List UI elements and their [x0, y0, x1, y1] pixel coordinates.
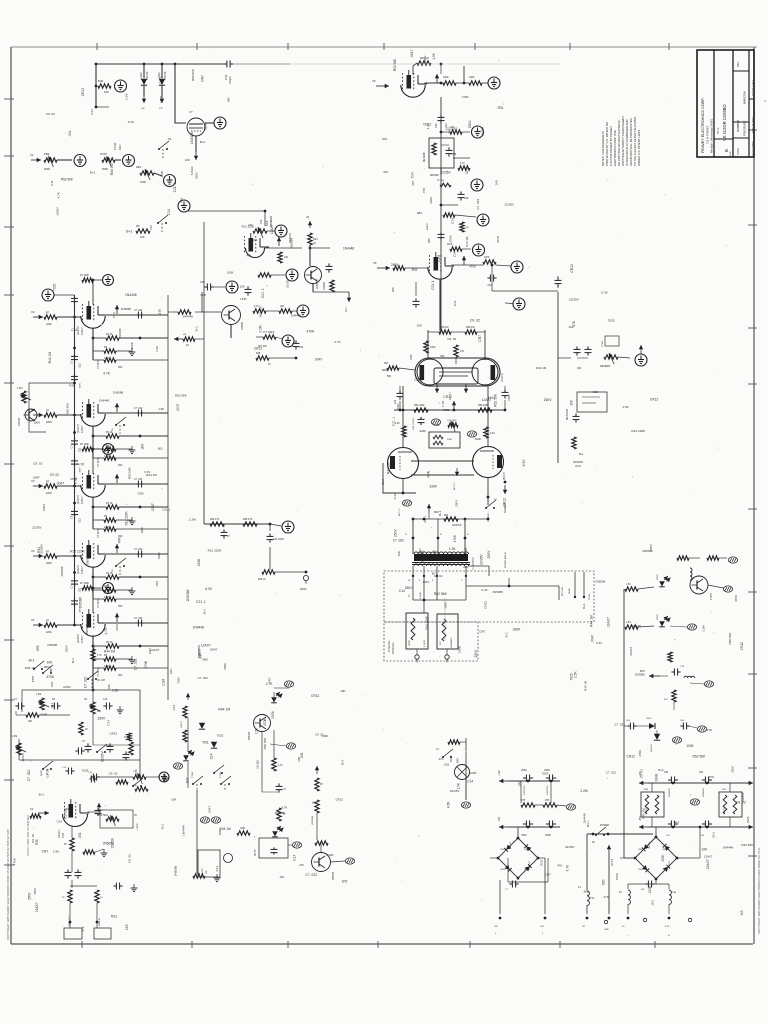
svg-text:.0047: .0047: [176, 403, 180, 411]
svg-text:45K: 45K: [118, 674, 123, 677]
svg-text:R44 1M: R44 1M: [220, 827, 232, 831]
svg-text:7025: 7025: [608, 318, 615, 322]
svg-text:.001: .001: [381, 137, 387, 141]
svg-text:R12 220K: R12 220K: [125, 510, 129, 525]
svg-text:C10: C10: [103, 699, 108, 701]
svg-text:.1/400V: .1/400V: [509, 394, 511, 402]
svg-text:6.3V: 6.3V: [205, 587, 213, 591]
svg-text:2.2K: 2.2K: [490, 433, 495, 435]
svg-text:470K: 470K: [160, 171, 164, 178]
svg-text:XF1: XF1: [345, 307, 348, 312]
svg-text:C? .022: C? .022: [134, 548, 143, 551]
svg-text:4.7K: 4.7K: [334, 340, 341, 344]
svg-text:100K: 100K: [518, 780, 522, 787]
svg-text:470K: 470K: [46, 675, 55, 679]
svg-text:4.7K: 4.7K: [97, 655, 102, 657]
svg-text:10K: 10K: [340, 689, 345, 693]
svg-text:LDR70: LDR70: [181, 720, 183, 728]
svg-text:RETRANS: RETRANS: [566, 409, 569, 420]
svg-text:10K: 10K: [280, 305, 285, 308]
svg-text:250V: 250V: [70, 477, 78, 481]
svg-text:.022: .022: [79, 363, 82, 368]
svg-text:12BC7: 12BC7: [81, 496, 84, 504]
svg-text:7025: 7025: [217, 733, 224, 737]
svg-text:2N5088: 2N5088: [333, 871, 335, 880]
svg-text:R23: R23: [313, 238, 318, 241]
svg-text:CR12: CR12: [484, 601, 488, 609]
svg-text:4.7K: 4.7K: [57, 192, 61, 198]
svg-text:10K: 10K: [397, 550, 401, 556]
svg-text:220/5W: 220/5W: [724, 807, 726, 814]
svg-text:2.2M: 2.2M: [702, 625, 706, 632]
svg-text:6.3V: 6.3V: [596, 641, 602, 645]
svg-text:7025: 7025: [746, 816, 750, 823]
svg-text:C9 .02: C9 .02: [109, 772, 118, 776]
svg-text:+C: +C: [183, 333, 186, 336]
svg-text:.0047: .0047: [207, 806, 211, 814]
svg-text:C50: C50: [664, 772, 669, 774]
svg-text:22/35V: 22/35V: [286, 278, 290, 288]
svg-text:C14: C14: [410, 172, 414, 178]
svg-text:CR12: CR12: [740, 642, 744, 650]
svg-text:CR57: CR57: [638, 849, 644, 851]
svg-text:4.7K: 4.7K: [266, 682, 273, 686]
svg-text:.022: .022: [79, 587, 82, 592]
svg-text:680: 680: [602, 879, 606, 885]
svg-text:C33 10/35: C33 10/35: [273, 539, 284, 541]
svg-text:R31: R31: [498, 106, 504, 110]
svg-text:1.5K: 1.5K: [53, 849, 59, 853]
svg-text:R12 220K: R12 220K: [208, 549, 223, 553]
svg-text:ACTL2: ACTL2: [611, 858, 614, 866]
svg-text:12AX7: 12AX7: [706, 859, 710, 869]
svg-text:330K: 330K: [40, 712, 48, 716]
svg-text:SEND: SEND: [300, 589, 307, 591]
svg-text:DATE 28 JAN 5: DATE 28 JAN 5: [752, 116, 755, 133]
svg-text:C14: C14: [90, 109, 94, 115]
svg-text:330K: 330K: [655, 773, 659, 782]
svg-text:DEEP: DEEP: [41, 770, 43, 776]
svg-text:(12AX7): (12AX7): [77, 424, 80, 433]
svg-text:45K: 45K: [118, 605, 123, 608]
svg-text:250V: 250V: [271, 710, 275, 718]
svg-text:220K: 220K: [46, 492, 52, 495]
svg-text:C14: C14: [293, 854, 297, 860]
svg-text:1.5K: 1.5K: [434, 423, 440, 427]
svg-text:R44 1M: R44 1M: [387, 462, 391, 474]
svg-text:4.7K: 4.7K: [460, 163, 465, 165]
svg-text:100K: 100K: [648, 885, 652, 894]
svg-text:4.7K: 4.7K: [433, 549, 437, 557]
svg-text:CR12: CR12: [311, 694, 320, 698]
svg-text:C14: C14: [172, 704, 176, 710]
svg-text:2N5088: 2N5088: [85, 624, 89, 635]
svg-text:CR12: CR12: [414, 378, 422, 382]
svg-text:STP50: STP50: [711, 592, 713, 600]
svg-text:C? .022: C? .022: [134, 478, 143, 481]
svg-text:R12 220K: R12 220K: [424, 616, 428, 629]
svg-text:R31: R31: [203, 740, 209, 744]
svg-text:C14: C14: [107, 720, 111, 726]
svg-text:C14: C14: [452, 251, 456, 257]
svg-text:470K: 470K: [263, 718, 267, 727]
svg-text:1.5K: 1.5K: [574, 671, 578, 678]
svg-text:C? 22/35: C? 22/35: [97, 457, 100, 467]
svg-text:.001: .001: [68, 130, 72, 137]
svg-text:6.3V: 6.3V: [92, 646, 96, 653]
svg-text:TITLE: TITLE: [717, 127, 720, 134]
svg-text:C54A: C54A: [521, 769, 527, 772]
svg-text:22/35V: 22/35V: [481, 127, 485, 136]
svg-text:R52 56K: R52 56K: [175, 394, 187, 398]
svg-text:R40: R40: [98, 79, 104, 83]
svg-text:220K: 220K: [443, 76, 449, 79]
svg-text:100K: 100K: [484, 257, 490, 259]
svg-text:B+1: B+1: [71, 658, 75, 664]
svg-text:B+1: B+1: [126, 230, 132, 234]
svg-text:R52 56K: R52 56K: [728, 633, 732, 645]
svg-text:500K: 500K: [44, 167, 50, 171]
svg-text:250V: 250V: [474, 649, 478, 658]
svg-text:2.2M: 2.2M: [12, 736, 17, 738]
svg-text:10K: 10K: [185, 158, 190, 162]
svg-text:12AX7: 12AX7: [270, 224, 274, 234]
svg-text:V8A: V8A: [440, 355, 445, 358]
svg-text:470K: 470K: [469, 264, 476, 268]
svg-text:47K: 47K: [707, 728, 713, 732]
svg-text:4.7K: 4.7K: [103, 372, 110, 376]
svg-text:MAIN IN: MAIN IN: [98, 917, 101, 926]
svg-text:330K: 330K: [430, 485, 438, 489]
svg-text:R52 56K: R52 56K: [693, 754, 707, 758]
svg-text:2.2M: 2.2M: [437, 255, 441, 262]
svg-text:1.2M: 1.2M: [17, 387, 22, 390]
svg-text:4.7K: 4.7K: [565, 864, 569, 871]
svg-text:GND: GND: [604, 929, 609, 931]
svg-text:7025: 7025: [269, 216, 273, 223]
svg-text:10K: 10K: [140, 235, 145, 239]
svg-text:C? 22/35: C? 22/35: [97, 528, 100, 538]
svg-text:R44 1M: R44 1M: [536, 366, 547, 370]
svg-text:FTSW: FTSW: [602, 340, 604, 347]
svg-text:R52 56K: R52 56K: [258, 306, 262, 317]
svg-text:10000/50: 10000/50: [669, 787, 671, 797]
svg-text:1N4448: 1N4448: [99, 398, 110, 402]
svg-text:STNDBY: STNDBY: [488, 513, 490, 522]
svg-text:100K: 100K: [686, 744, 694, 748]
svg-text:2N5088: 2N5088: [103, 842, 114, 846]
svg-text:C9 .02: C9 .02: [50, 473, 60, 477]
svg-text:C7 .022: C7 .022: [305, 873, 317, 877]
svg-text:R49 1M: R49 1M: [466, 326, 474, 329]
svg-text:.022: .022: [487, 285, 492, 287]
svg-text:CR7: CR7: [545, 872, 551, 876]
svg-text:B+1: B+1: [658, 768, 664, 772]
svg-text:T8A: T8A: [672, 891, 677, 894]
svg-text:.0047: .0047: [210, 648, 218, 652]
svg-text:R44 1M: R44 1M: [146, 473, 157, 477]
svg-text:1.5/35: 1.5/35: [240, 299, 247, 301]
svg-text:2N5088: 2N5088: [249, 731, 251, 740]
svg-text:7025: 7025: [410, 354, 413, 360]
svg-text:R12 220K: R12 220K: [631, 429, 646, 433]
svg-text:2N5088: 2N5088: [275, 811, 286, 815]
svg-text:B+1: B+1: [203, 609, 207, 615]
svg-text:220K: 220K: [447, 439, 453, 441]
svg-text:2K: 2K: [85, 729, 88, 731]
svg-text:1N4448: 1N4448: [291, 313, 301, 317]
svg-text:.0047: .0047: [32, 475, 40, 479]
svg-text:FTSW: FTSW: [220, 771, 222, 778]
svg-text:2N5088: 2N5088: [60, 566, 64, 576]
svg-text:R44 1M: R44 1M: [48, 351, 52, 363]
svg-text:47K: 47K: [117, 536, 121, 543]
svg-text:1.5K: 1.5K: [155, 346, 159, 352]
svg-text:1K5: 1K5: [125, 924, 129, 930]
svg-text:.0047: .0047: [496, 235, 500, 243]
svg-text:R76: R76: [545, 800, 550, 802]
svg-text:47K: 47K: [572, 320, 576, 327]
svg-text:100K: 100K: [130, 342, 134, 349]
svg-text:2.2M: 2.2M: [161, 679, 165, 686]
svg-text:12BC7: 12BC7: [81, 566, 84, 574]
svg-text:10K: 10K: [47, 660, 54, 664]
svg-text:2N5961: 2N5961: [241, 321, 244, 330]
svg-text:B+1: B+1: [29, 659, 35, 663]
svg-text:47K: 47K: [557, 864, 562, 868]
svg-text:1N4448: 1N4448: [190, 132, 194, 144]
svg-text:250V: 250V: [195, 172, 199, 179]
svg-text:250V: 250V: [98, 716, 107, 720]
svg-text:680: 680: [391, 287, 395, 292]
svg-text:47K: 47K: [180, 198, 184, 203]
svg-text:220K: 220K: [46, 421, 52, 424]
svg-text:250V: 250V: [423, 55, 427, 63]
svg-text:2N5088: 2N5088: [113, 391, 124, 395]
svg-text:8 OHM: 8 OHM: [424, 640, 426, 647]
svg-text:1N4003: 1N4003: [510, 841, 512, 849]
svg-text:+V: +V: [141, 106, 145, 110]
svg-text:400V: 400V: [80, 382, 82, 388]
svg-text:R12 220K: R12 220K: [242, 225, 255, 229]
svg-text:(12AX7): (12AX7): [77, 326, 80, 335]
svg-text:C29: C29: [464, 198, 469, 200]
svg-text:470K: 470K: [115, 623, 119, 631]
svg-text:56K: 56K: [387, 375, 392, 378]
svg-text:1N4003: 1N4003: [669, 860, 671, 868]
svg-text:C14: C14: [57, 820, 63, 824]
svg-text:22/35V: 22/35V: [256, 760, 260, 769]
svg-text:NUMBER: NUMBER: [736, 120, 740, 132]
svg-text:DRIVER: DRIVER: [430, 175, 439, 177]
svg-text:680: 680: [593, 390, 598, 394]
svg-text:12AX7: 12AX7: [21, 752, 25, 761]
svg-text:FS2: FS2: [149, 225, 153, 230]
svg-text:REVERB: REVERB: [600, 365, 610, 368]
svg-text:1N4448: 1N4448: [193, 625, 205, 629]
svg-text:12BC7: 12BC7: [81, 425, 84, 433]
svg-text:R52 56K: R52 56K: [191, 69, 195, 81]
svg-text:CR7: CR7: [465, 167, 469, 174]
svg-text:V3: V3: [31, 479, 35, 483]
svg-text:22/35V: 22/35V: [450, 789, 460, 793]
svg-text:(2N5088): (2N5088): [312, 816, 314, 825]
svg-text:CR65: CR65: [657, 574, 659, 580]
svg-text:1.5K: 1.5K: [112, 688, 120, 692]
svg-text:C? .022: C? .022: [134, 407, 143, 410]
svg-text:REV: REV: [736, 61, 740, 67]
svg-text:10K: 10K: [702, 848, 709, 852]
svg-text:1N4448: 1N4448: [722, 846, 733, 850]
svg-text:R47: R47: [384, 362, 389, 365]
svg-text:470K: 470K: [306, 329, 315, 333]
svg-text:B+1: B+1: [582, 603, 586, 609]
svg-text:250V: 250V: [455, 499, 459, 507]
svg-text:REVERB: REVERB: [424, 152, 426, 162]
svg-text:22/35V: 22/35V: [569, 298, 580, 302]
svg-text:47K: 47K: [36, 644, 40, 651]
svg-text:R? 100K: R? 100K: [80, 583, 89, 585]
svg-text:POWER AMP IN: POWER AMP IN: [504, 551, 507, 568]
svg-text:1.2M: 1.2M: [36, 694, 41, 696]
svg-text:(12AX7): (12AX7): [77, 565, 80, 574]
svg-text:VK 112GR COMBO: VK 112GR COMBO: [722, 104, 727, 141]
svg-text:C9 .02: C9 .02: [33, 461, 42, 465]
svg-text:12AX7: 12AX7: [607, 617, 611, 627]
svg-text:7025: 7025: [82, 769, 89, 773]
svg-text:C21 .1: C21 .1: [162, 508, 171, 512]
svg-text:1K5: 1K5: [488, 396, 494, 400]
svg-text:GND: GND: [240, 828, 245, 830]
svg-text:1N4448: 1N4448: [343, 246, 354, 250]
svg-text:47K: 47K: [422, 188, 426, 193]
svg-text:+V: +V: [159, 106, 163, 110]
svg-text:680: 680: [584, 890, 589, 894]
svg-text:250V: 250V: [44, 665, 52, 669]
svg-text:C9 .02: C9 .02: [315, 733, 324, 737]
svg-text:R52 56K: R52 56K: [128, 467, 132, 479]
svg-text:COPYRIGHT 1995 PEAVEY ELECTRON: COPYRIGHT 1995 PEAVEY ELECTRONICS CORP. …: [6, 829, 10, 940]
svg-text:220/5W: 220/5W: [646, 807, 648, 814]
svg-text:C14: C14: [467, 779, 473, 783]
svg-text:10K: 10K: [447, 128, 451, 133]
svg-text:.001: .001: [157, 447, 163, 451]
svg-text:4.7K: 4.7K: [441, 401, 445, 407]
svg-text:2N5088: 2N5088: [47, 643, 57, 647]
svg-text:100K: 100K: [159, 95, 163, 103]
svg-text:CR56: CR56: [524, 869, 530, 871]
svg-text:22/35V: 22/35V: [565, 845, 575, 849]
svg-text:B+1: B+1: [90, 171, 96, 175]
svg-text:250V: 250V: [730, 766, 734, 773]
svg-text:R? 680: R? 680: [437, 180, 445, 182]
svg-text:SPEAKER: SPEAKER: [392, 642, 395, 654]
svg-text:C55A: C55A: [521, 834, 527, 837]
svg-text:SPKR: SPKR: [409, 640, 411, 646]
svg-text:C9 .02: C9 .02: [64, 809, 68, 819]
svg-text:6.3V: 6.3V: [522, 459, 526, 467]
svg-text:330K: 330K: [458, 646, 462, 653]
svg-text:500K: 500K: [102, 167, 108, 171]
svg-text:B+1: B+1: [39, 792, 45, 796]
svg-text:R? 1K: R? 1K: [106, 503, 113, 505]
svg-text:B+1: B+1: [712, 832, 716, 838]
svg-text:B+2: B+2: [200, 140, 205, 144]
svg-text:(12AX7): (12AX7): [77, 495, 80, 504]
svg-text:R44 1M: R44 1M: [642, 808, 646, 819]
svg-text:470K: 470K: [144, 660, 148, 669]
svg-text:4.7K: 4.7K: [446, 801, 450, 809]
svg-text:12AX7: 12AX7: [704, 855, 713, 859]
svg-text:6.3V: 6.3V: [601, 291, 608, 295]
svg-text:C14: C14: [50, 702, 54, 708]
svg-text:EXT.: EXT.: [440, 640, 442, 645]
svg-text:R52 56K: R52 56K: [420, 549, 424, 563]
svg-text:R52 56K: R52 56K: [263, 738, 267, 750]
svg-text:1N4448: 1N4448: [125, 293, 137, 297]
svg-text:22/35V: 22/35V: [101, 751, 105, 762]
svg-text:.001: .001: [155, 581, 159, 587]
svg-text:CR12: CR12: [570, 264, 574, 273]
svg-text:CR7: CR7: [479, 629, 485, 633]
svg-text:1K: 1K: [268, 364, 271, 366]
svg-text:1N4448: 1N4448: [183, 314, 194, 318]
svg-text:COPYRIGHT 1985 PEAVEY ELECTRON: COPYRIGHT 1985 PEAVEY ELECTRONICS CORP. …: [757, 847, 761, 934]
svg-text:2N5088: 2N5088: [315, 279, 319, 289]
svg-text:C9 .02: C9 .02: [447, 337, 456, 341]
svg-text:47K: 47K: [460, 350, 465, 353]
svg-text:1000/25V: 1000/25V: [547, 785, 549, 795]
svg-text:B.BST: B.BST: [33, 675, 35, 682]
svg-text:100K: 100K: [469, 76, 475, 79]
svg-text:C56 500P: C56 500P: [447, 420, 457, 422]
svg-text:2N5088: 2N5088: [492, 590, 503, 594]
svg-text:6.3V: 6.3V: [665, 926, 670, 928]
svg-text:CR7: CR7: [109, 456, 116, 460]
svg-text:7025: 7025: [570, 673, 574, 680]
svg-text:REV: REV: [136, 165, 142, 169]
svg-text:SHEET 1 OF 2: SHEET 1 OF 2: [752, 79, 755, 96]
svg-text:C14: C14: [50, 180, 54, 186]
svg-text:C7 .022: C7 .022: [27, 770, 31, 782]
svg-text:LAMP: LAMP: [470, 772, 477, 775]
svg-text:680: 680: [427, 238, 431, 243]
svg-text:12AX7: 12AX7: [55, 207, 59, 216]
svg-text:.0047: .0047: [591, 634, 595, 642]
svg-text:470K: 470K: [615, 872, 619, 880]
svg-text:INTERNAL: INTERNAL: [388, 640, 391, 652]
svg-text:2N5088: 2N5088: [290, 238, 294, 249]
svg-text:1.5K: 1.5K: [158, 407, 164, 411]
svg-text:R? 100K: R? 100K: [80, 444, 89, 446]
svg-text:C14: C14: [134, 769, 138, 775]
svg-text:R12 220K: R12 220K: [197, 645, 201, 658]
svg-text:330K: 330K: [223, 663, 227, 670]
svg-text:2N5088: 2N5088: [118, 328, 122, 338]
svg-text:250V: 250V: [28, 892, 32, 900]
svg-text:CR12: CR12: [159, 76, 163, 84]
svg-text:18V: 18V: [494, 926, 498, 928]
svg-text:C9 .02: C9 .02: [470, 319, 480, 323]
svg-text:6.3V: 6.3V: [124, 93, 128, 100]
svg-text:C? .022: C? .022: [134, 309, 143, 312]
svg-text:R36 1K: R36 1K: [258, 579, 266, 581]
svg-text:R52 56K: R52 56K: [434, 592, 448, 596]
svg-text:R52 56K: R52 56K: [741, 843, 753, 847]
svg-text:470K: 470K: [734, 594, 738, 602]
svg-text:C14: C14: [112, 312, 116, 318]
svg-text:8 OHM: 8 OHM: [420, 592, 422, 599]
